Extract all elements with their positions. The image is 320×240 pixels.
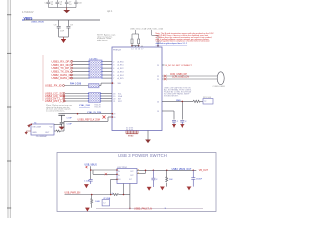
svg-text:14: 14: [131, 49, 133, 51]
wire: [65, 83, 112, 85]
capacitor C22: [191, 170, 195, 186]
svg-text:USB3_TX_DN_C: USB3_TX_DN_C: [52, 70, 73, 74]
wire FAULT bottom: [96, 207, 203, 209]
svg-text:C4: C4: [45, 2, 47, 4]
svg-text:USB3_TX_DP_C: USB3_TX_DP_C: [52, 66, 73, 70]
svg-text:USB3_VBUS: USB3_VBUS: [31, 22, 44, 24]
svg-text:FLT: FLT: [129, 179, 132, 181]
svg-text:19: 19: [157, 111, 159, 113]
wire y101.4 w/ resistor R9: [162, 100, 193, 102]
svg-text:SMB: SMB: [176, 100, 181, 102]
resistor R44 (hatched small): [89, 84, 100, 88]
svg-text:25.000MHZ: 25.000MHZ: [36, 136, 48, 138]
note text purple (right): [164, 86, 192, 97]
resnet RN2 (hatched): [89, 93, 101, 103]
svg-text:U10: U10: [157, 42, 162, 45]
svg-text:USB_VDD_3.3A: USB_VDD_3.3A: [130, 27, 147, 30]
svg-text:4: 4: [113, 68, 114, 70]
svg-text:OSC25M: OSC25M: [32, 126, 41, 128]
wire: cap bank bottom rail: [49, 7, 77, 9]
svg-text:XTAL_IN_25M: XTAL_IN_25M: [87, 111, 101, 114]
svg-text:VD: VD: [50, 126, 53, 128]
svg-text:21: 21: [113, 101, 115, 103]
wire y113.5: [62, 113, 112, 115]
svg-text:C 1UF: C 1UF: [84, 180, 90, 182]
resistor R22: [166, 170, 168, 186]
svg-text:STUBS SHORT.: STUBS SHORT.: [164, 95, 179, 97]
svg-text:150UF: 150UF: [196, 179, 203, 181]
ground C10: [172, 125, 176, 128]
svg-text:A_RX0: A_RX0: [118, 60, 124, 63]
svg-text:12: 12: [103, 203, 105, 205]
svg-text:CON_USB3_DN: CON_USB3_DN: [172, 77, 189, 79]
DNI marks on conn wires: [164, 75, 166, 81]
svg-text:CONN USB3: CONN USB3: [213, 86, 226, 88]
svg-text:GND: GND: [32, 132, 37, 134]
wire: IC top pins: [132, 46, 158, 47]
border zone ticks: [7, 15, 11, 208]
small box J2: [203, 99, 213, 105]
ground (cap bank): [64, 8, 69, 13]
svg-text:6: 6: [113, 75, 114, 77]
ground (xtal left mid): [25, 131, 31, 134]
svg-text:EPAD: EPAD: [128, 135, 134, 138]
svg-text:R51 2K: R51 2K: [95, 107, 102, 109]
note text (red, top-right): [156, 32, 215, 42]
svg-text:9: 9: [113, 83, 114, 85]
svg-text:USB_VDD_3.3A: USB_VDD_3.3A: [147, 27, 164, 30]
ground R24: [85, 208, 89, 211]
capacitor C20: [89, 180, 93, 184]
svg-text:A_RX4: A_RX4: [118, 74, 124, 77]
capacitor C5: [57, 20, 61, 37]
svg-text:7: 7: [113, 78, 114, 80]
bus (faint red vertical): [42, 55, 44, 101]
svg-text:OUT: OUT: [130, 175, 134, 177]
svg-text:C 18P: C 18P: [67, 118, 73, 120]
ground (IC bottom right): [147, 131, 149, 141]
svg-text:16: 16: [138, 49, 140, 51]
svg-text:A_RX5: A_RX5: [118, 77, 124, 80]
svg-text:3: 3: [113, 65, 114, 67]
note text (gray, near IC top-left): [97, 34, 115, 42]
wire join: [59, 36, 69, 38]
ground (xtal top-left): [28, 124, 31, 127]
svg-text:25: 25: [157, 65, 159, 67]
connector P1 (coax ellipse): [217, 72, 224, 85]
wire EN pin: [111, 179, 117, 194]
resistor R5 pull-up: [152, 30, 158, 47]
svg-text:B_NC DO NOT CONNECT: B_NC DO NOT CONNECT: [166, 65, 193, 67]
svg-text:USB2_PX_ID: USB2_PX_ID: [45, 84, 62, 88]
svg-text:A_RX3: A_RX3: [118, 71, 124, 74]
svg-text:U11 TPS2: U11 TPS2: [117, 167, 128, 169]
svg-text:to control reflections.: to control reflections.: [46, 110, 65, 113]
capacitor C11: [180, 121, 184, 125]
svg-text:22: 22: [157, 76, 159, 78]
resistor R3/R4 pull-up pair: [131, 30, 140, 47]
DNI cross: [103, 116, 106, 119]
svg-text:USB3_VBUS_OUT: USB3_VBUS_OUT: [172, 169, 192, 171]
svg-text:USB3_RST_L_N: USB3_RST_L_N: [45, 99, 66, 103]
svg-text:1UF: 1UF: [60, 31, 65, 33]
svg-text:2: 2: [113, 61, 114, 63]
jumper box J3: [102, 200, 110, 206]
power switch chip U2: [117, 169, 137, 184]
capacitor C31: [60, 115, 64, 127]
sheet left border: [8, 0, 10, 218]
svg-text:USB3_RX_DN_C: USB3_RX_DN_C: [52, 63, 74, 67]
svg-text:L6 CMC: L6 CMC: [90, 58, 98, 60]
svg-text:30: 30: [113, 117, 115, 119]
capacitor C30 load cap column: [58, 114, 65, 120]
svg-text:PI3EQX: PI3EQX: [113, 50, 121, 52]
ground C20: [84, 185, 88, 188]
svg-text:21: 21: [157, 79, 159, 81]
ground R22: [160, 187, 164, 190]
wire VBUS rail: [24, 19, 100, 21]
note text (gray under rows): [46, 104, 72, 113]
capacitor C6: [66, 20, 70, 37]
svg-text:USB3_REFCLK 25M: USB3_REFCLK 25M: [78, 118, 100, 121]
svg-text:USB3_FAULT_N: USB3_FAULT_N: [134, 208, 152, 211]
svg-text:17: 17: [141, 49, 143, 51]
wire VOUT: [137, 169, 196, 171]
svg-text:5: 5: [113, 72, 114, 74]
wire OUT2 joins: [137, 170, 145, 173]
wire y111 + caps to gnd: [162, 101, 182, 119]
svg-text:A_RX1: A_RX1: [118, 64, 124, 67]
svg-text:CON_USB3_DP: CON_USB3_DP: [170, 74, 187, 76]
svg-text:USB3_RX_DP_C: USB3_RX_DP_C: [52, 59, 73, 63]
svg-text:15: 15: [135, 49, 137, 51]
svg-text:100K: 100K: [95, 201, 100, 203]
wire FLT vertical: [124, 184, 130, 209]
wires xtal outputs: [54, 121, 64, 132]
svg-text:4.7UF/10V: 4.7UF/10V: [22, 11, 34, 14]
capacitor C10: [172, 121, 176, 125]
IC right pin (NC): [162, 64, 165, 66]
svg-text:OUT: OUT: [130, 171, 134, 173]
USB3 power switch sub-block frame: [57, 153, 216, 212]
op IC U1 (USB redriver) body: [112, 47, 162, 131]
svg-text:29: 29: [113, 114, 115, 116]
svg-text:XTAL_25M: XTAL_25M: [79, 104, 90, 107]
svg-text:20: 20: [157, 101, 159, 103]
svg-text:C 18P: C 18P: [67, 123, 73, 125]
svg-text:JP USB: JP USB: [103, 198, 111, 200]
IC bottom GND pin cluster: [126, 127, 133, 131]
ground C22: [187, 187, 191, 190]
svg-text:VB_OUT: VB_OUT: [199, 170, 209, 172]
svg-text:SEL: SEL: [118, 83, 122, 85]
ground (under caps): [61, 37, 66, 42]
resistor R24 pulldown: [91, 195, 93, 208]
capacitor C21: [151, 170, 155, 187]
svg-text:A_RX2: A_RX2: [118, 67, 124, 70]
svg-text:R21 10K: R21 10K: [203, 97, 212, 99]
svg-text:wide traces.: wide traces.: [97, 39, 108, 42]
ground (load caps): [59, 127, 65, 129]
svg-text:USB2_DATA_DN: USB2_DATA_DN: [52, 76, 73, 80]
svg-text:opt 1: opt 1: [107, 10, 113, 13]
ground C21: [147, 187, 151, 190]
ground C11: [180, 125, 184, 128]
capacitor bank C1-C4 (top, cut off): [47, 0, 78, 8]
svg-text:USB 3 POWER SWITCH: USB 3 POWER SWITCH: [118, 153, 167, 158]
svg-text:OUT: OUT: [45, 132, 50, 134]
